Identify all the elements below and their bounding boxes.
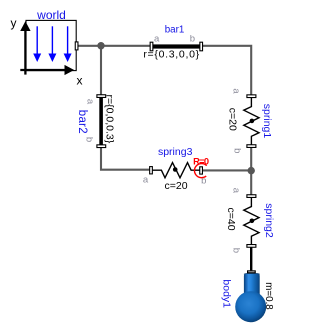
- svg-text:a: a: [85, 99, 96, 105]
- svg-text:a: a: [154, 33, 160, 44]
- svg-text:spring3: spring3: [158, 146, 193, 158]
- svg-text:b: b: [190, 33, 195, 44]
- svg-text:c=40: c=40: [225, 207, 237, 230]
- svg-text:c=20: c=20: [164, 180, 187, 192]
- svg-text:b: b: [84, 137, 95, 142]
- svg-text:bar1: bar1: [165, 24, 185, 35]
- svg-text:y: y: [11, 16, 17, 30]
- svg-text:a: a: [231, 88, 242, 94]
- svg-text:r={0,0,0.3}: r={0,0,0.3}: [104, 95, 116, 144]
- svg-text:spring1: spring1: [261, 104, 273, 139]
- svg-text:spring2: spring2: [263, 203, 275, 238]
- svg-text:r={0.3,0,0}: r={0.3,0,0}: [143, 48, 199, 60]
- svg-text:b: b: [232, 148, 243, 153]
- svg-text:x: x: [77, 74, 83, 88]
- svg-text:world: world: [36, 8, 66, 22]
- svg-text:c=20: c=20: [227, 108, 239, 131]
- svg-text:a: a: [231, 188, 242, 194]
- svg-text:m=0.8: m=0.8: [263, 282, 274, 310]
- svg-text:a: a: [143, 174, 149, 185]
- svg-text:bar2: bar2: [76, 110, 88, 134]
- svg-text:R=0: R=0: [193, 157, 209, 167]
- svg-text:b: b: [231, 248, 242, 253]
- svg-text:body1: body1: [221, 279, 233, 308]
